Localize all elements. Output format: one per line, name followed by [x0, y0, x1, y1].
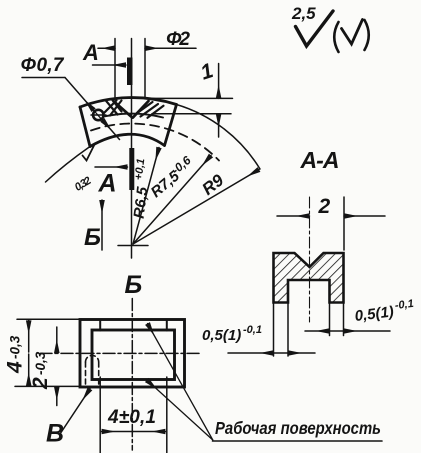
inner arc extension thin [46, 147, 91, 183]
step line left [99, 321, 101, 331]
section mark bottom bar [129, 148, 134, 190]
F0,7 leader through hole arrow 1 [65, 78, 94, 111]
svg-text:0,5(1): 0,5(1) [354, 303, 395, 325]
svg-text:2: 2 [318, 195, 331, 218]
svg-text:Б: Б [125, 271, 143, 299]
R9 dimension line [133, 170, 259, 245]
V-notch left wall [114, 101, 133, 118]
serration band bottom arc [104, 114, 163, 118]
dim 1 extension lines [147, 98, 233, 113]
parenthesis left [334, 22, 338, 52]
label 0,5(1)-0,1 right [353, 298, 415, 325]
R7,5 dimension line [133, 156, 211, 245]
svg-text:A-A: A-A [300, 147, 340, 173]
serration hatch left [106, 100, 122, 114]
F2 dimension arrows [98, 47, 115, 49]
svg-text:2: 2 [29, 377, 52, 390]
section centerline [309, 197, 311, 322]
dim 0,5 right arrows [305, 330, 330, 332]
part inner arc [90, 134, 165, 146]
outer rectangle [80, 320, 185, 388]
svg-text:-0,3: -0,3 [33, 351, 48, 375]
svg-text:R6,5: R6,5 [131, 185, 152, 219]
dim 2-0,3 line [56, 327, 58, 353]
section mark top bar [127, 58, 133, 86]
svg-text:0,32: 0,32 [73, 175, 94, 194]
dim 1 line [218, 64, 220, 99]
leader to outer top [148, 324, 213, 441]
roughness 0,32 mark [83, 145, 95, 161]
hole center cross [91, 114, 106, 116]
F2 extension lines [115, 39, 145, 98]
svg-text:0,5(1): 0,5(1) [202, 327, 241, 344]
hidden hole dashed right [98, 362, 100, 386]
label R6,5+0,1 [128, 158, 155, 220]
F0,7 line through hole [93, 110, 103, 122]
part left edge [80, 107, 90, 147]
leader to inner bottom [147, 380, 213, 440]
svg-text:-0,3: -0,3 [8, 335, 23, 359]
svg-text:Φ0,7: Φ0,7 [21, 55, 65, 76]
section extension lines down [274, 303, 289, 357]
label underline [213, 440, 383, 442]
svg-text:2,5: 2,5 [291, 4, 316, 23]
svg-text:Φ2: Φ2 [166, 29, 190, 50]
label R7,5-0,6 [146, 153, 198, 201]
dim 0,5 left arrows [228, 352, 274, 354]
svg-text:В: В [46, 420, 64, 448]
label 4-0,3 [4, 335, 27, 374]
svg-text:A: A [82, 40, 99, 65]
svg-text:4±0,1: 4±0,1 [107, 407, 156, 428]
A bottom arrow [95, 166, 128, 168]
dim 2 ext line right [343, 197, 345, 250]
svg-text:+0,1: +0,1 [133, 158, 148, 181]
part outer arc R9 [80, 98, 177, 107]
svg-text:4: 4 [4, 361, 27, 374]
svg-text:Б: Б [84, 224, 101, 251]
parenthesis right [365, 20, 369, 50]
inner rectangle slot [92, 330, 175, 380]
B view arrow [101, 200, 103, 250]
section hatch fill [274, 253, 344, 303]
F0,7 leader through hole arrow 2 [102, 120, 119, 140]
A top arrow [93, 64, 127, 66]
section outline [274, 253, 344, 303]
label 2-0,3 [29, 351, 52, 390]
svg-text:R9: R9 [199, 170, 228, 199]
label 0,5(1)-0,1 left [202, 324, 262, 344]
svg-text:Рабочая поверхность: Рабочая поверхность [215, 418, 381, 438]
hidden slot arc R7,5 dashed [91, 124, 219, 161]
step line right [166, 321, 168, 331]
dim 2 arrows [277, 215, 310, 217]
svg-text:1: 1 [198, 59, 216, 84]
serration hatch right [137, 102, 164, 118]
hidden hole dashed cap [86, 355, 99, 362]
hidden hole dashed left [85, 362, 87, 386]
small check mark [342, 20, 363, 45]
vertical centerline [131, 299, 133, 451]
part right edge [165, 105, 177, 146]
svg-text:A: A [98, 170, 117, 198]
horizontal centerline [40, 352, 199, 354]
dim 4-0,3 ext lines [15, 319, 81, 386]
dim 4+-0,1 arrows [102, 431, 133, 433]
svg-text:-0,1: -0,1 [243, 324, 262, 336]
R6,5 dimension line [133, 148, 159, 245]
dim 4-0,3 line [28, 320, 30, 352]
svg-text:-0,1: -0,1 [394, 298, 414, 312]
section-center line A-A vertical [131, 39, 133, 259]
serration hatch left reverse [104, 100, 122, 115]
hole 0,7 [93, 110, 103, 120]
dim 4+-0,1 ext lines [100, 377, 167, 453]
V leader [60, 389, 90, 434]
big check mark [296, 11, 334, 46]
V-notch right wall [133, 101, 149, 118]
F0,7 leader underline [22, 77, 65, 79]
center tick [118, 245, 148, 247]
R9 extension arc thin [177, 105, 261, 170]
